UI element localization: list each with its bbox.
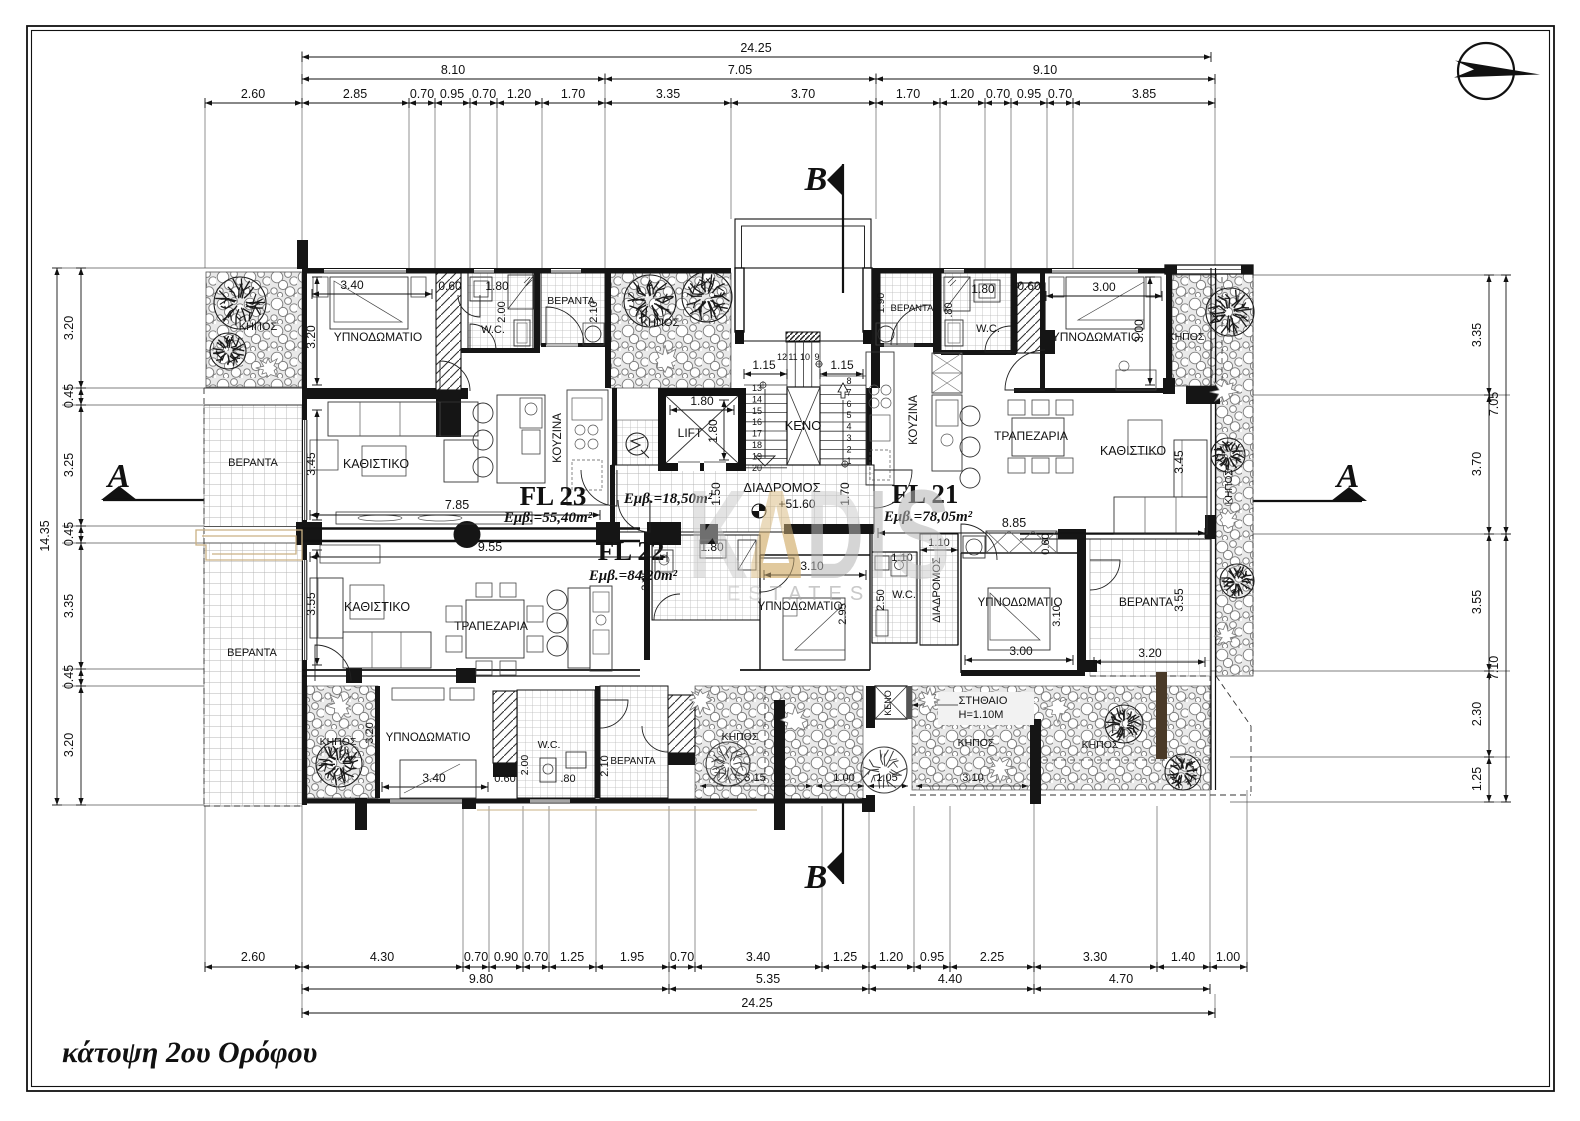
wall FL22 living/bedroom divider <box>302 669 640 671</box>
wall veranda FL21 bottom <box>877 343 937 347</box>
shaft FL23 hatched <box>436 273 461 390</box>
svg-text:0.70: 0.70 <box>464 950 488 964</box>
svg-text:1.20: 1.20 <box>507 87 531 101</box>
shrub bottom-left <box>326 695 351 719</box>
door veranda FL21 bottom <box>1090 560 1120 590</box>
dimension column left inner <box>80 268 82 805</box>
svg-text:2.60: 2.60 <box>241 87 265 101</box>
wall left outer <box>302 268 307 805</box>
door FL23 entry <box>581 470 617 506</box>
svg-text:ΤΡΑΠΕΖΑΡΙΑ: ΤΡΑΠΕΖΑΡΙΑ <box>994 429 1068 443</box>
door veranda FL22 bottom <box>600 700 628 728</box>
door veranda FL23 <box>546 307 584 345</box>
stair direction line up <box>842 400 844 462</box>
shaft FL22 bottom hatched <box>493 691 517 763</box>
brown bar veranda FL21 <box>1156 672 1167 759</box>
kitchen FL22 counter <box>590 586 612 671</box>
lift shaft <box>662 392 742 467</box>
garden right dashed edge <box>1252 273 1254 676</box>
wall veranda FL21 left <box>872 268 880 388</box>
benchmark symbol <box>752 504 766 518</box>
garden bottom-center divider dashed <box>764 686 766 800</box>
desk bedroom FL21 <box>1116 370 1156 390</box>
wc FL23 tiles <box>468 273 533 351</box>
bed FL21 <box>1066 277 1144 329</box>
svg-text:FL 22: FL 22 <box>598 536 665 566</box>
svg-text:ΚΗΠΟΣ: ΚΗΠΟΣ <box>1224 469 1235 504</box>
sofa FL22 vertical <box>310 578 343 638</box>
wc2 FL22 fixtures <box>875 556 889 570</box>
survey point mid <box>760 382 766 388</box>
svg-text:ΚΕΝΟ: ΚΕΝΟ <box>883 690 893 716</box>
svg-text:3.45: 3.45 <box>1172 450 1186 474</box>
right extension lines <box>1244 274 1510 276</box>
stair steps right <box>820 375 866 377</box>
shrub top-center <box>656 345 678 373</box>
svg-text:0.45: 0.45 <box>62 522 76 546</box>
dimension row 8.10/7.05/9.10 top <box>302 78 1215 80</box>
svg-text:2.95: 2.95 <box>837 603 849 624</box>
black bar bottom right garden <box>1030 719 1041 804</box>
wc2 FL22 tiles <box>872 552 917 643</box>
svg-text:3.00: 3.00 <box>1092 280 1116 294</box>
window left living FL23 <box>303 420 308 520</box>
dimension 14.35 left <box>56 268 58 805</box>
wc FL23 fixtures <box>470 277 492 301</box>
veranda FL21 tiles <box>880 273 935 344</box>
svg-text:ESTATES: ESTATES <box>727 583 871 605</box>
dimension detail row top <box>205 102 1215 104</box>
svg-text:1.80: 1.80 <box>971 282 995 296</box>
svg-text:3.55: 3.55 <box>1470 590 1484 614</box>
svg-text:0.70: 0.70 <box>670 950 694 964</box>
svg-text:1.15: 1.15 <box>830 358 854 372</box>
svg-text:ΤΡΑΠΕΖΑΡΙΑ: ΤΡΑΠΕΖΑΡΙΑ <box>454 619 528 633</box>
veranda FL23 tiles <box>541 273 605 345</box>
sofa FL21 vertical <box>1174 440 1207 497</box>
svg-text:17: 17 <box>752 429 762 439</box>
svg-text:4.70: 4.70 <box>1109 972 1133 986</box>
svg-text:1.70: 1.70 <box>561 87 585 101</box>
svg-text:ΒΕΡΑΝΤΑ: ΒΕΡΑΝΤΑ <box>610 756 656 767</box>
bed FL22 <box>400 760 476 798</box>
svg-text:W.C.: W.C. <box>976 323 1000 335</box>
svg-text:.80: .80 <box>560 773 575 785</box>
column FL21 living bottom right <box>1205 515 1215 539</box>
column mid band right <box>596 522 620 545</box>
washer veranda FL23 <box>585 326 601 342</box>
svg-text:7.10: 7.10 <box>1487 656 1501 680</box>
door bedroom FL21 main <box>1005 350 1045 390</box>
survey point right <box>842 461 848 467</box>
svg-text:1.25: 1.25 <box>1470 767 1484 791</box>
svg-text:13: 13 <box>752 383 762 393</box>
column bedroom FL21 corner <box>1186 386 1220 404</box>
shaft FL21 hatched <box>1017 283 1045 353</box>
shrub right 1 <box>1210 380 1239 402</box>
kitchen FL21 counter left <box>866 352 894 485</box>
svg-text:ΒΕΡΑΝΤΑ: ΒΕΡΑΝΤΑ <box>1119 595 1173 609</box>
svg-text:3.55: 3.55 <box>304 592 318 616</box>
svg-text:ΚΗΠΟΣ: ΚΗΠΟΣ <box>1168 331 1205 343</box>
stair up arrow <box>838 383 848 398</box>
svg-text:B: B <box>804 161 828 198</box>
svg-text:2.10: 2.10 <box>599 755 611 776</box>
garden top-right dashed division <box>1221 277 1223 386</box>
svg-text:2.00: 2.00 <box>519 755 531 776</box>
window top veranda FL23 <box>551 269 581 274</box>
tree right 2 <box>1211 438 1245 472</box>
sofa FL22 horizontal <box>343 632 431 668</box>
window left living FL22 <box>303 560 308 660</box>
svg-text:3.30: 3.30 <box>1083 950 1107 964</box>
svg-text:2.00: 2.00 <box>496 301 508 322</box>
svg-text:ΚΑΘΙΣΤΙΚΟ: ΚΑΘΙΣΤΙΚΟ <box>1100 444 1166 458</box>
svg-text:3.45: 3.45 <box>304 452 318 476</box>
dimension 1.10 corridor FL21 <box>920 549 958 551</box>
survey point top <box>816 361 822 367</box>
garden top-center pebbles <box>610 273 731 388</box>
wall FL22 column divider <box>644 532 650 660</box>
svg-text:1.15: 1.15 <box>752 358 776 372</box>
window top wc FL23 <box>474 269 494 274</box>
svg-text:3.10: 3.10 <box>962 772 983 784</box>
svg-text:ΚΑΘΙΣΤΙΚΟ: ΚΑΘΙΣΤΙΚΟ <box>343 457 409 471</box>
veranda left top boundary <box>204 387 302 389</box>
svg-text:0.95: 0.95 <box>1017 87 1041 101</box>
garden right strip pebbles <box>1216 273 1253 676</box>
shrub bottom-right mid <box>987 757 1013 783</box>
shrub bottom-center <box>690 690 712 714</box>
wall bottom main <box>302 799 872 804</box>
garden divider black bar <box>774 700 785 830</box>
tree right 1 <box>1206 288 1254 336</box>
wall bedroom2 FL22 box <box>759 555 761 670</box>
wall bedroom2 FL21 right heavy <box>1077 534 1086 660</box>
wc1 FL22 tiles <box>652 535 760 620</box>
svg-text:3.35: 3.35 <box>656 87 680 101</box>
svg-text:9.80: 9.80 <box>469 972 493 986</box>
column bottom jog <box>862 798 875 812</box>
wall veranda FL23 bottom <box>541 343 606 347</box>
svg-text:3.15: 3.15 <box>744 772 765 784</box>
dimension 8.85 FL21 <box>878 532 1205 534</box>
svg-text:14.35: 14.35 <box>38 520 52 551</box>
svg-text:ΥΠΝΟΔΩΜΑΤΙΟ: ΥΠΝΟΔΩΜΑΤΙΟ <box>386 732 471 744</box>
svg-text:3.20: 3.20 <box>1138 646 1162 660</box>
stair direction line down <box>764 389 766 458</box>
window bottom bedroom FL22 <box>390 799 462 803</box>
svg-text:15: 15 <box>752 406 762 416</box>
wall top FL21 <box>872 268 1172 274</box>
bottom extension lines <box>204 806 206 972</box>
door wc1 FL22 <box>654 594 680 620</box>
sofa FL23 <box>328 402 478 436</box>
svg-text:24.25: 24.25 <box>740 41 771 55</box>
svg-text:3.35: 3.35 <box>1470 323 1484 347</box>
column above top-left corner <box>297 240 308 269</box>
stair dimension 1.15 left <box>744 373 787 375</box>
svg-text:ΚΑΘΙΣΤΙΚΟ: ΚΑΘΙΣΤΙΚΟ <box>344 600 410 614</box>
shrub top-left <box>256 358 278 377</box>
bed FL23 <box>330 277 408 329</box>
corridor FL21 tiles <box>920 534 958 645</box>
door wc FL23 <box>458 295 480 317</box>
tree bottom-keno <box>861 747 907 793</box>
svg-text:3.40: 3.40 <box>340 278 364 292</box>
tree bottom-center <box>706 742 750 786</box>
svg-text:ΚΟΥΖΙΝΑ: ΚΟΥΖΙΝΑ <box>552 413 564 463</box>
svg-text:1.70: 1.70 <box>896 87 920 101</box>
wall veranda/wc FL21 divider <box>933 273 941 354</box>
bed FL21 bd2 <box>988 588 1050 650</box>
kitchen FL21 stools <box>960 406 980 426</box>
dimension column right inner <box>1488 275 1490 802</box>
svg-text:4: 4 <box>846 422 851 432</box>
svg-text:ΣΤΗΘΑΙΟ: ΣΤΗΘΑΙΟ <box>959 695 1008 707</box>
svg-text:5.35: 5.35 <box>756 972 780 986</box>
wall bedroom2 FL21 box <box>960 553 962 673</box>
stairwell side walls <box>735 268 744 332</box>
wall bedroom FL21 left <box>1040 273 1045 388</box>
svg-text:3.25: 3.25 <box>62 453 76 477</box>
watermark tan outline on wall <box>196 530 302 560</box>
svg-text:2.60: 2.60 <box>241 950 265 964</box>
wall top FL23 <box>302 268 731 274</box>
svg-text:3.20: 3.20 <box>304 325 318 349</box>
kitchen FL23 stools <box>473 403 493 423</box>
svg-text:FL 23: FL 23 <box>520 481 587 511</box>
wall wc FL21 right <box>1011 273 1017 354</box>
window top bedroom FL21 <box>1052 269 1138 274</box>
svg-text:0.70: 0.70 <box>472 87 496 101</box>
tree top-center 1 <box>624 275 676 327</box>
watermark logo KADIS <box>688 464 950 605</box>
svg-text:3.85: 3.85 <box>1132 87 1156 101</box>
tree bottom-left <box>316 741 362 787</box>
stair dimension 1.15 right <box>820 373 863 375</box>
kitchen FL22 stools <box>547 590 567 610</box>
dimension 24.25 top <box>302 56 1211 58</box>
svg-text:2.10: 2.10 <box>588 301 600 322</box>
svg-text:1.20: 1.20 <box>879 950 903 964</box>
svg-text:ΚΗΠΟΣ: ΚΗΠΟΣ <box>1082 739 1119 751</box>
dimension 3.20 veranda <box>1094 661 1205 663</box>
svg-text:12: 12 <box>777 352 787 362</box>
svg-text:ΚΗΠΟΣ: ΚΗΠΟΣ <box>958 737 995 749</box>
top extension lines <box>204 103 206 268</box>
veranda FL21 bottom dashed edge <box>1090 675 1210 677</box>
svg-text:1.90: 1.90 <box>875 293 887 314</box>
svg-text:Εμβ.=55,40m²: Εμβ.=55,40m² <box>503 510 593 526</box>
svg-text:1.40: 1.40 <box>1171 950 1195 964</box>
column mid band fl22wc <box>647 522 681 545</box>
svg-text:16: 16 <box>752 417 762 427</box>
dimension 3.00 FL21 bedroom <box>1046 295 1162 297</box>
tree top-left big <box>214 277 266 329</box>
svg-text:1.25: 1.25 <box>833 950 857 964</box>
door bedroom FL22 <box>315 645 351 681</box>
column bottom left pillar <box>355 798 367 830</box>
wc FL22 bottom tiles <box>517 690 595 798</box>
kitchen FL22 island <box>568 588 590 668</box>
svg-text:0.70: 0.70 <box>524 950 548 964</box>
svg-text:10: 10 <box>800 352 810 362</box>
dimension 3.00 FL21 bedroom v <box>1149 277 1151 385</box>
svg-text:0.70: 0.70 <box>1048 87 1072 101</box>
stair top hatched band <box>786 332 820 342</box>
svg-text:3.10: 3.10 <box>1051 605 1063 626</box>
svg-text:6: 6 <box>846 399 851 409</box>
dresser bedroom FL22 <box>392 688 444 700</box>
svg-text:3.40: 3.40 <box>746 950 770 964</box>
door bedroom2 FL21 <box>961 524 997 560</box>
veranda left dashed edge <box>203 388 205 806</box>
wc FL21 fixtures <box>944 277 970 311</box>
svg-text:9.55: 9.55 <box>478 540 502 554</box>
wc1 FL22 fixtures <box>655 550 673 572</box>
wall bedroom FL21 bottom <box>1014 388 1174 393</box>
dresser bedroom FL22 <box>392 688 444 700</box>
dimension detail row bottom <box>205 966 1247 968</box>
dimension row 9.80/5.35/4.40/4.70 bottom <box>302 988 1210 990</box>
window bottom wc FL22 <box>530 799 570 803</box>
dimension 3.40 FL23 bedroom <box>312 293 432 295</box>
north arrow <box>1458 43 1514 99</box>
svg-text:H=1.10M: H=1.10M <box>959 709 1004 721</box>
svg-text:18: 18 <box>752 440 762 450</box>
dimension 3.45 FL23 living v <box>316 410 318 520</box>
stair landing lines <box>786 341 788 387</box>
svg-text:1.80: 1.80 <box>485 279 509 293</box>
svg-text:4.30: 4.30 <box>370 950 394 964</box>
wall right outer <box>1210 268 1212 790</box>
svg-text:14: 14 <box>752 394 762 404</box>
svg-text:2: 2 <box>846 444 851 454</box>
svg-text:LIFT: LIFT <box>678 426 703 440</box>
column mid band circle <box>454 521 481 548</box>
svg-text:0.60: 0.60 <box>494 773 515 785</box>
svg-text:B: B <box>804 859 828 896</box>
svg-text:ΚΟΥΖΙΝΑ: ΚΟΥΖΙΝΑ <box>908 395 920 445</box>
washer FL21 bd2 <box>963 536 985 558</box>
svg-text:2.25: 2.25 <box>980 950 1004 964</box>
wall band heavy corridor <box>700 524 718 544</box>
column mid band left <box>296 522 322 545</box>
svg-text:0.70: 0.70 <box>986 87 1010 101</box>
column bottom pillar2 <box>462 798 476 809</box>
svg-text:3.20: 3.20 <box>62 316 76 340</box>
svg-text:3.20: 3.20 <box>62 733 76 757</box>
shrub bottom-right <box>1044 699 1070 723</box>
svg-text:W.C.: W.C. <box>538 739 561 751</box>
door FL22 entry <box>618 500 650 532</box>
dimension 3.00 FL21 bd2 <box>965 659 1073 661</box>
svg-text:7.05: 7.05 <box>1487 392 1501 416</box>
wall band mid FL23/FL22 <box>302 527 640 529</box>
tree top-center 2 <box>682 272 732 322</box>
svg-text:1.80: 1.80 <box>690 394 714 408</box>
dimension 3.55 FL22 v <box>316 550 318 665</box>
wall wc2 FL22 box <box>872 551 917 553</box>
veranda left mid white band <box>204 527 302 543</box>
svg-text:3.20: 3.20 <box>364 722 376 743</box>
svg-text:4.40: 4.40 <box>938 972 962 986</box>
wall wc FL21 bottom <box>941 350 1016 355</box>
wall corridor left <box>610 465 615 532</box>
svg-text:9.10: 9.10 <box>1033 63 1057 77</box>
shrub right 3 <box>1215 623 1238 644</box>
armchair FL21 <box>1128 420 1162 454</box>
coffee table FL22 <box>320 545 380 563</box>
keno2 shaft <box>875 686 907 719</box>
keno stair void <box>787 387 820 465</box>
garden top-right pebbles <box>1172 275 1253 386</box>
shrub bottom-center2 <box>781 706 808 731</box>
left extension lines <box>62 267 302 269</box>
svg-text:0.95: 0.95 <box>920 950 944 964</box>
svg-text:0.70: 0.70 <box>410 87 434 101</box>
sofa FL21 horizontal <box>1114 497 1207 534</box>
svg-text:3: 3 <box>846 433 851 443</box>
parapet arrow <box>912 704 958 706</box>
shaft FL22 corridor hatched <box>668 695 695 753</box>
svg-text:W.C.: W.C. <box>481 324 505 336</box>
svg-text:0.95: 0.95 <box>440 87 464 101</box>
lift dimension 1.80 h <box>670 409 734 411</box>
watermark tan underline bottom <box>477 809 757 811</box>
stair steps left <box>744 384 787 386</box>
garden bottom-right dashed boundary <box>910 794 1251 796</box>
keno2 walls <box>866 686 875 728</box>
lift lobby tiles <box>617 420 659 469</box>
shrub right 2 <box>1220 510 1239 528</box>
svg-text:1.25: 1.25 <box>560 950 584 964</box>
kitchen FL21 upper cabinet <box>932 353 962 393</box>
svg-text:ΒΕΡΑΝΤΑ: ΒΕΡΑΝΤΑ <box>891 303 935 314</box>
garden bottom-left pebbles <box>307 686 378 798</box>
door bedroom FL23 <box>440 361 470 391</box>
svg-text:κάτοψη 2ου Ορόφου: κάτοψη 2ου Ορόφου <box>62 1036 317 1069</box>
svg-text:ΒΕΡΑΝΤΑ: ΒΕΡΑΝΤΑ <box>228 457 278 469</box>
wc FL21 tiles <box>941 273 1011 351</box>
lift dimension 1.80 v <box>723 400 725 460</box>
door FL21 entry <box>874 470 912 508</box>
svg-text:ΥΠΝΟΔΩΜΑΤΙΟ: ΥΠΝΟΔΩΜΑΤΙΟ <box>1052 330 1141 344</box>
svg-text:24.25: 24.25 <box>741 996 772 1010</box>
svg-text:3.00: 3.00 <box>1009 644 1033 658</box>
wall stair right lower <box>866 388 872 465</box>
entrance block parapet <box>735 219 871 268</box>
svg-text:11: 11 <box>788 352 797 362</box>
dimension 3.20 FL23 bedroom v <box>316 277 318 385</box>
svg-text:5: 5 <box>846 410 851 420</box>
svg-text:ΒΕΡΑΝΤΑ: ΒΕΡΑΝΤΑ <box>227 647 277 659</box>
tv console FL23 <box>336 512 532 524</box>
wall top-right step <box>1165 265 1253 274</box>
wall divider garden/veranda FL23 top <box>605 273 611 388</box>
wc FL22 bottom fixtures <box>540 758 556 782</box>
watermark tan underline bottom <box>477 809 757 811</box>
svg-text:1.05: 1.05 <box>876 772 897 784</box>
svg-text:0.90: 0.90 <box>494 950 518 964</box>
wall wc FL22 bottom right <box>595 686 600 798</box>
svg-text:3.70: 3.70 <box>1470 452 1484 476</box>
wall wc/veranda FL23 divider <box>534 273 540 353</box>
tree bottom-right dark B <box>1165 754 1201 790</box>
svg-text:.80: .80 <box>943 302 955 317</box>
tree right 3 <box>1220 564 1254 598</box>
